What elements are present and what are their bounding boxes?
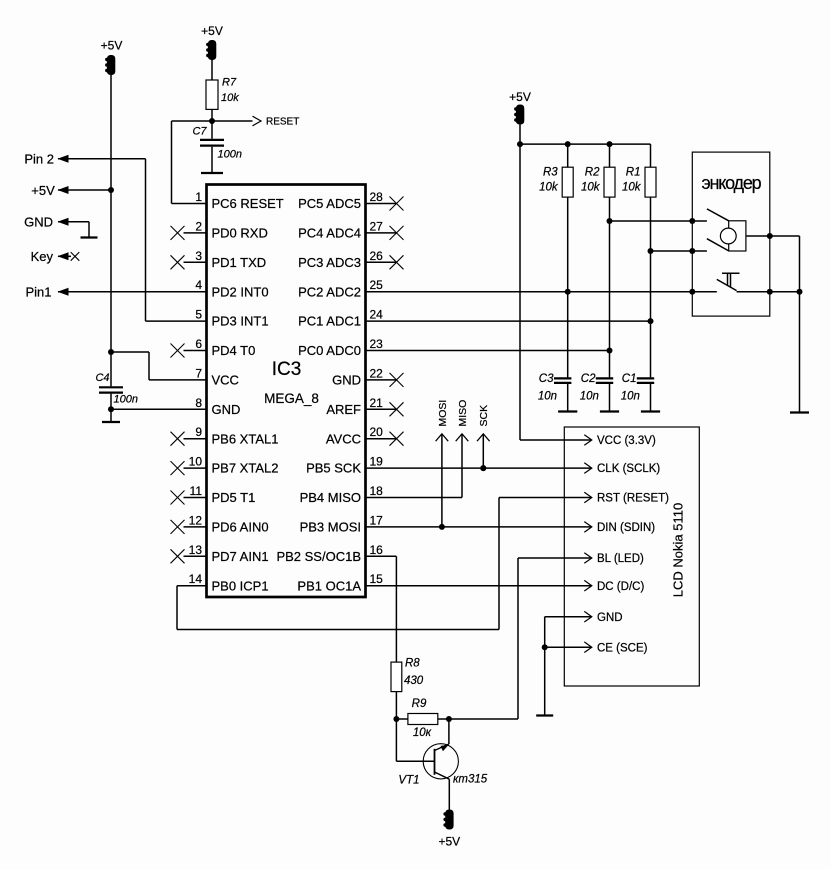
svg-text:10k: 10k (221, 92, 239, 104)
svg-text:16: 16 (370, 543, 384, 557)
svg-text:GND: GND (597, 612, 623, 624)
svg-text:PC6 RESET: PC6 RESET (212, 196, 284, 211)
svg-text:10k: 10k (539, 182, 559, 194)
svg-text:R1: R1 (626, 166, 641, 178)
svg-text:4: 4 (195, 278, 202, 292)
svg-text:PB2 SS/OC1B: PB2 SS/OC1B (276, 549, 361, 564)
svg-text:PC0 ADC0: PC0 ADC0 (298, 343, 361, 358)
svg-text:+5V: +5V (438, 835, 460, 849)
svg-text:C4: C4 (95, 372, 109, 384)
svg-text:PD4 T0: PD4 T0 (212, 343, 256, 358)
svg-text:10n: 10n (621, 390, 640, 402)
svg-text:11: 11 (190, 484, 203, 498)
svg-text:VCC (3.3V): VCC (3.3V) (597, 435, 656, 447)
svg-text:PC2 ADC2: PC2 ADC2 (298, 284, 361, 299)
svg-text:AREF: AREF (326, 402, 361, 417)
svg-text:+5V: +5V (201, 24, 223, 38)
svg-text:RST (RESET): RST (RESET) (597, 493, 669, 505)
svg-text:MOSI: MOSI (437, 400, 449, 427)
svg-text:энкодер: энкодер (702, 173, 762, 193)
svg-text:19: 19 (370, 455, 384, 469)
svg-text:10k: 10k (581, 182, 601, 194)
svg-text:VT1: VT1 (398, 775, 419, 787)
svg-text:PB3 MOSI: PB3 MOSI (300, 520, 361, 535)
svg-text:AVCC: AVCC (326, 431, 361, 446)
svg-text:PD1 TXD: PD1 TXD (212, 255, 267, 270)
svg-text:PC1 ADC1: PC1 ADC1 (298, 314, 361, 329)
svg-text:CLK (SCLK): CLK (SCLK) (597, 463, 660, 475)
svg-text:430: 430 (404, 675, 424, 687)
svg-text:DIN (SDIN): DIN (SDIN) (597, 522, 655, 534)
svg-text:DC (D/C): DC (D/C) (597, 581, 644, 593)
svg-text:PC4 ADC4: PC4 ADC4 (298, 226, 361, 241)
svg-text:C2: C2 (581, 373, 596, 385)
svg-text:PB4 MISO: PB4 MISO (300, 490, 361, 505)
svg-text:7: 7 (195, 366, 202, 380)
svg-text:13: 13 (189, 543, 203, 557)
svg-text:C1: C1 (622, 373, 637, 385)
svg-text:+5V: +5V (31, 183, 55, 198)
svg-text:C7: C7 (192, 126, 207, 138)
svg-text:Pin 2: Pin 2 (24, 152, 54, 167)
svg-text:22: 22 (370, 366, 384, 380)
svg-text:Key: Key (31, 249, 54, 264)
svg-text:27: 27 (370, 219, 384, 233)
svg-text:PB0 ICP1: PB0 ICP1 (212, 578, 269, 593)
svg-text:R7: R7 (222, 77, 237, 89)
svg-text:+5V: +5V (101, 39, 123, 53)
svg-text:PC5 ADC5: PC5 ADC5 (298, 196, 361, 211)
svg-text:R8: R8 (405, 658, 420, 670)
svg-text:PD5 T1: PD5 T1 (212, 490, 256, 505)
svg-text:кm315: кm315 (453, 774, 488, 786)
svg-text:28: 28 (370, 190, 384, 204)
svg-text:100n: 100n (218, 149, 242, 161)
svg-text:100n: 100n (114, 394, 138, 406)
svg-text:14: 14 (189, 572, 203, 586)
svg-text:PD0 RXD: PD0 RXD (212, 226, 268, 241)
svg-text:24: 24 (370, 308, 384, 322)
svg-text:IC3: IC3 (272, 359, 302, 380)
svg-text:RESET: RESET (266, 117, 299, 128)
svg-text:R9: R9 (412, 698, 427, 710)
svg-text:15: 15 (370, 572, 384, 586)
svg-text:PD2 INT0: PD2 INT0 (212, 284, 269, 299)
svg-text:PD6 AIN0: PD6 AIN0 (212, 520, 269, 535)
svg-text:10k: 10k (622, 182, 642, 194)
svg-text:10: 10 (189, 455, 203, 469)
svg-text:PB5 SCK: PB5 SCK (306, 461, 361, 476)
svg-text:SCK: SCK (478, 405, 490, 427)
svg-text:20: 20 (370, 425, 384, 439)
svg-text:PD3 INT1: PD3 INT1 (212, 314, 269, 329)
svg-text:C3: C3 (539, 373, 554, 385)
svg-text:26: 26 (370, 249, 384, 263)
svg-text:BL (LED): BL (LED) (597, 553, 644, 565)
svg-text:LCD Nokia 5110: LCD Nokia 5110 (671, 503, 686, 597)
svg-text:10к: 10к (413, 727, 432, 739)
svg-text:8: 8 (195, 396, 202, 410)
svg-text:MISO: MISO (457, 400, 469, 427)
svg-text:R2: R2 (585, 166, 600, 178)
svg-text:R3: R3 (543, 166, 558, 178)
svg-text:MEGA_8: MEGA_8 (264, 391, 319, 406)
svg-text:25: 25 (370, 278, 384, 292)
svg-text:23: 23 (370, 337, 384, 351)
svg-text:PB7 XTAL2: PB7 XTAL2 (212, 461, 279, 476)
svg-text:6: 6 (195, 337, 202, 351)
svg-text:+5V: +5V (509, 90, 531, 104)
svg-text:GND: GND (332, 373, 361, 388)
svg-text:9: 9 (195, 425, 202, 439)
svg-text:3: 3 (195, 249, 202, 263)
svg-text:PB1 OC1A: PB1 OC1A (297, 578, 361, 593)
svg-text:12: 12 (189, 513, 203, 527)
svg-text:GND: GND (212, 402, 241, 417)
svg-text:2: 2 (195, 219, 202, 233)
svg-text:Pin1: Pin1 (25, 285, 51, 300)
svg-text:PD7 AIN1: PD7 AIN1 (212, 549, 269, 564)
svg-text:10n: 10n (538, 390, 557, 402)
svg-text:21: 21 (370, 396, 384, 410)
svg-text:5: 5 (195, 308, 202, 322)
svg-text:VCC: VCC (212, 373, 239, 388)
svg-text:PB6 XTAL1: PB6 XTAL1 (212, 431, 279, 446)
svg-text:PC3 ADC3: PC3 ADC3 (298, 255, 361, 270)
svg-text:18: 18 (370, 484, 384, 498)
svg-text:1: 1 (195, 190, 202, 204)
svg-text:10n: 10n (580, 390, 599, 402)
svg-text:CE (SCE): CE (SCE) (597, 642, 648, 654)
svg-text:17: 17 (370, 513, 384, 527)
svg-text:GND: GND (24, 215, 53, 230)
